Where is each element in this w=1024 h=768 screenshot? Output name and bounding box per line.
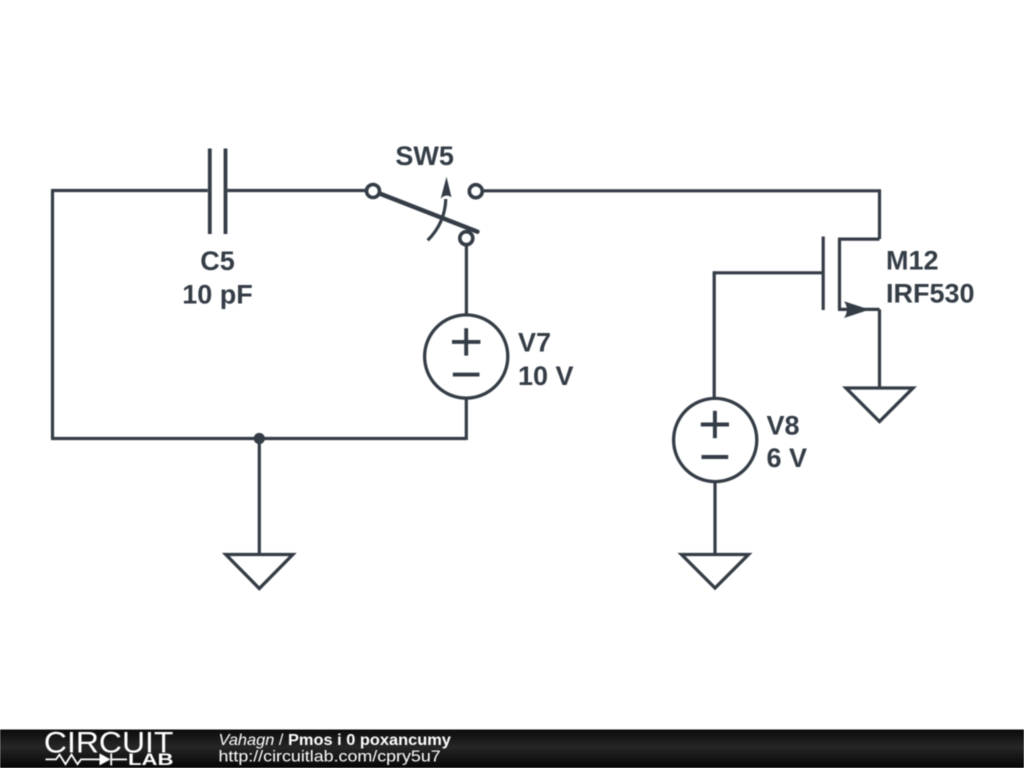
voltage source V8 [674, 398, 757, 481]
svg-text:V8: V8 [767, 410, 800, 440]
transistor M12 [823, 237, 879, 311]
wire V7 to bottom [465, 398, 468, 440]
ground G1 (bottom net) [226, 555, 293, 589]
wire gate horizontal [714, 271, 823, 274]
switch SW5 [367, 185, 483, 245]
svg-text:IRF530: IRF530 [886, 279, 975, 309]
M12 gate bar [822, 237, 825, 311]
wire top middle segment (capacitor to switch) [227, 189, 366, 192]
svg-text:V7: V7 [518, 328, 551, 358]
switch terminal left [367, 185, 380, 198]
voltage source V7 [425, 315, 508, 398]
svg-text:Vahagn / Pmos i 0 poxancumy: Vahagn / Pmos i 0 poxancumy [219, 732, 451, 749]
ground G2 (under M12 source) [846, 388, 913, 422]
svg-text:6 V: 6 V [767, 443, 808, 473]
wire switch to V7 [465, 244, 468, 315]
svg-text:M12: M12 [886, 245, 939, 275]
svg-text:10 pF: 10 pF [182, 279, 253, 309]
M12 source arrow [844, 301, 870, 318]
logo resistor-diode line [46, 753, 128, 765]
switch terminal right [469, 185, 482, 198]
svg-text:http://circuitlab.com/cpry5u7: http://circuitlab.com/cpry5u7 [219, 749, 441, 766]
switch arrow head [441, 177, 452, 199]
switch lever [380, 194, 478, 232]
capacitor C5 [210, 149, 226, 235]
logo diode triangle [100, 753, 111, 765]
svg-text:10 V: 10 V [518, 361, 574, 391]
svg-text:C5: C5 [200, 246, 235, 276]
M12 source lead [838, 308, 880, 311]
junction dot [254, 433, 265, 444]
wire top right segment (switch to drain) [483, 189, 879, 192]
wire gate to V8 [713, 271, 716, 399]
switch arrow shaft [428, 199, 446, 240]
svg-text:SW5: SW5 [395, 141, 454, 171]
wire source vertical [878, 309, 881, 388]
M12 drain lead [838, 238, 880, 241]
wire junction to ground [258, 439, 261, 555]
switch terminal bottom [460, 232, 473, 245]
wire V8 to ground [713, 482, 716, 555]
M12 channel bar [838, 238, 841, 309]
svg-text:LAB: LAB [128, 751, 174, 768]
wire left vertical [51, 191, 54, 439]
wire drain vertical [878, 189, 881, 239]
ground G3 (under V8) [682, 555, 749, 589]
wire top left segment [51, 189, 208, 192]
wire bottom horizontal [51, 437, 466, 440]
